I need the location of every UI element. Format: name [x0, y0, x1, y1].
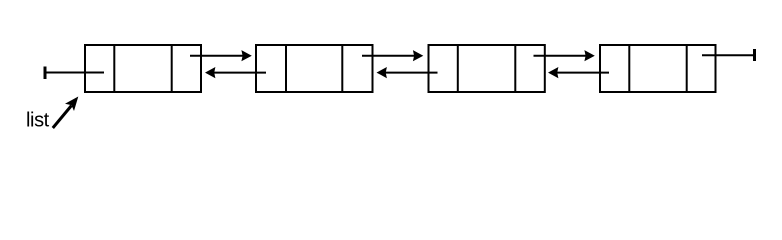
node 1 next arrow	[190, 50, 252, 61]
svg-text:list: list	[26, 110, 50, 132]
left null terminator	[44, 67, 47, 80]
list pointer arrow	[53, 97, 79, 129]
node 2 prev arrow	[205, 67, 266, 78]
right null terminator	[753, 49, 756, 61]
node 3 next arrow	[534, 50, 595, 61]
node 2 next arrow	[362, 50, 423, 61]
node 1 box	[85, 45, 201, 92]
node 4 next null wire	[702, 54, 755, 56]
node 2 box	[256, 45, 373, 92]
node 1 prev null wire	[45, 72, 104, 74]
node 3 prev arrow	[377, 67, 438, 78]
node 4 box	[600, 45, 716, 92]
node 3 box	[429, 45, 545, 92]
node 4 prev arrow	[548, 67, 609, 78]
